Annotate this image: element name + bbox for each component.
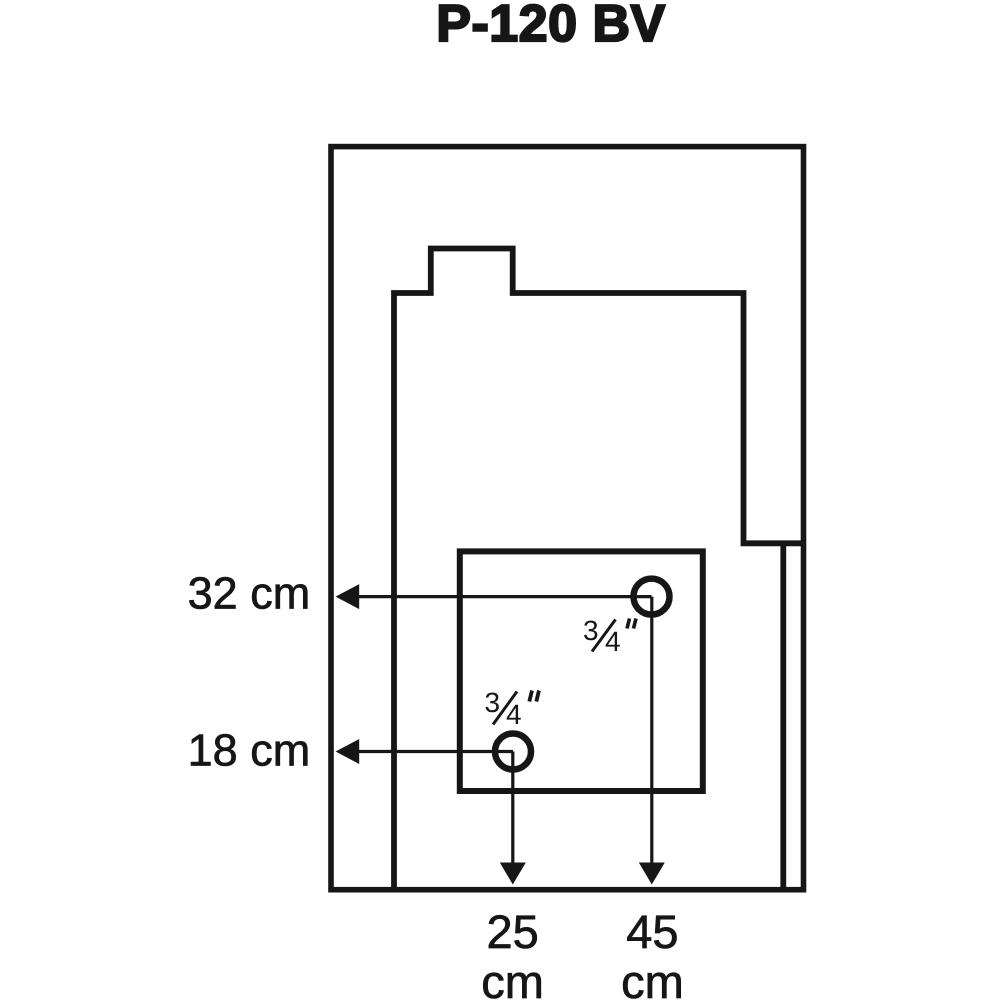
svg-text:3: 3 <box>583 615 599 646</box>
label 3/4 inch top port <box>583 615 636 657</box>
svg-text:P-120 BV: P-120 BV <box>436 0 665 53</box>
svg-text:18 cm: 18 cm <box>188 725 311 776</box>
arrowhead 32 cm <box>336 584 360 609</box>
boiler body outline <box>394 249 804 890</box>
dimension line 25 cm vertical <box>511 752 514 864</box>
port circle bottom 3/4 inch <box>495 734 531 770</box>
svg-text:cm: cm <box>621 955 684 1000</box>
dimension line 45 cm vertical <box>650 597 653 864</box>
svg-text:3: 3 <box>485 687 501 718</box>
svg-text:4: 4 <box>605 626 621 657</box>
svg-text:32 cm: 32 cm <box>188 567 311 618</box>
connection plate square <box>460 551 703 791</box>
arrowhead 25 cm <box>500 863 526 885</box>
svg-text:4: 4 <box>506 699 522 730</box>
port circle top 3/4 inch <box>634 579 670 615</box>
dimension line 32 cm horizontal <box>358 595 652 598</box>
label 3/4 inch bottom port <box>485 687 540 730</box>
svg-text:25: 25 <box>486 905 538 958</box>
svg-text:45: 45 <box>626 905 678 958</box>
dimension line 18 cm horizontal <box>358 750 513 753</box>
svg-text:cm: cm <box>481 955 544 1000</box>
right panel edge line <box>780 543 786 889</box>
arrowhead 18 cm <box>336 739 360 764</box>
arrowhead 45 cm <box>639 863 665 885</box>
outer casing rectangle <box>331 147 804 890</box>
